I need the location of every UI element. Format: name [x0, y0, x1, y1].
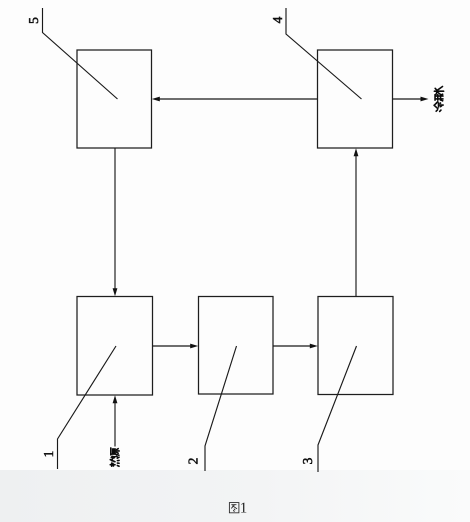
label 热源 (heat source), rotated, chars bottom-to-top	[110, 448, 119, 466]
wire box3 -> box4	[355, 156, 357, 297]
leader line label 3	[318, 346, 357, 472]
wire box4 -> box5	[160, 98, 318, 100]
box 1 (bottom-left)	[77, 297, 153, 396]
leader line label 4	[286, 8, 362, 99]
arrowhead into box5	[152, 97, 160, 102]
arrowhead into box3	[310, 344, 318, 349]
leader line label 1	[58, 346, 117, 469]
label 1	[44, 451, 53, 456]
wire box1 -> box2	[153, 345, 192, 347]
arrowhead into condensate label	[421, 97, 429, 102]
label 3	[303, 458, 312, 464]
arrowhead into box4 bottom	[354, 148, 359, 156]
leader line label 5	[43, 8, 118, 99]
bottom scan band	[0, 0, 1, 1]
box 5 (top-left)	[77, 50, 152, 148]
arrowhead into box1 top	[113, 288, 118, 296]
arrowhead into box1 bottom (heat source)	[113, 395, 118, 403]
label 冷凝水 (condensate water), rotated, chars bottom-to-top	[434, 86, 443, 111]
box 3 (bottom-right)	[318, 297, 393, 395]
label 2	[189, 458, 198, 463]
wire heat source -> box1	[114, 402, 116, 447]
wire box4 -> condensate out	[393, 98, 422, 100]
box 4 (top-right)	[318, 50, 393, 148]
wire box5 -> box1	[114, 148, 116, 290]
caption 图1	[229, 503, 246, 513]
arrowhead into box2	[190, 344, 198, 349]
label 4	[273, 17, 282, 23]
box 2 (bottom-middle)	[199, 297, 274, 395]
leader line label 2	[205, 346, 237, 471]
label 5	[29, 18, 38, 23]
wire box2 -> box3	[273, 345, 311, 347]
